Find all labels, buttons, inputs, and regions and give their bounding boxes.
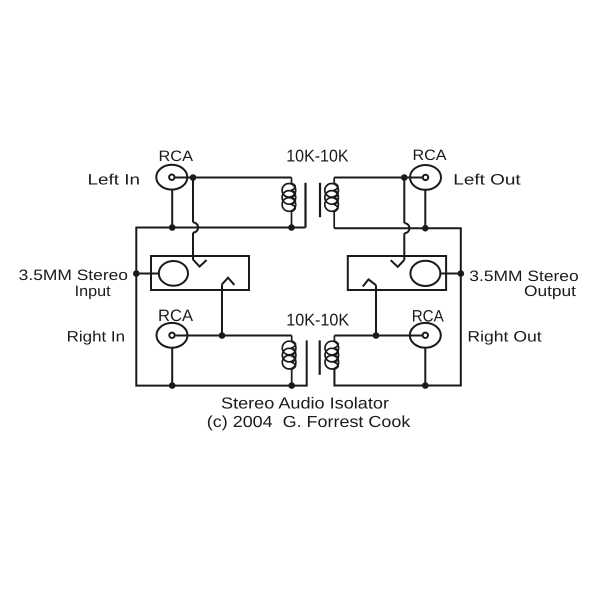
svg-text:Right Out: Right Out [467, 328, 542, 345]
junction T2 primary bottom / ground [288, 382, 295, 389]
svg-text:10K-10K: 10K-10K [286, 311, 350, 330]
wire output ground bus: T1 secondary bottom, right bus, bottom line [334, 228, 461, 385]
transformer T1 primary winding [282, 178, 296, 228]
svg-text:RCA: RCA [413, 147, 447, 164]
junction J6 ring / Right Out line [373, 332, 380, 339]
junction Right In shell / ground [169, 382, 176, 389]
transformer T2 core [319, 340, 321, 374]
svg-text:3.5MM Stereo: 3.5MM Stereo [19, 267, 128, 284]
RCA jack J2 Left Out [410, 165, 441, 190]
wire T1 secondary top to Left Out pin [334, 177, 423, 179]
svg-text:RCA: RCA [159, 148, 194, 165]
J6 ring contact [363, 279, 376, 286]
svg-text:Left Out: Left Out [453, 172, 521, 189]
junction Left In pin branch [190, 174, 197, 181]
wire Left In pin to T1 primary top [175, 177, 292, 179]
J6 tip contact [391, 260, 405, 267]
svg-text:RCA: RCA [158, 307, 193, 325]
transformer T1 secondary winding [325, 178, 339, 229]
wire J5 ring contact to Right In line [221, 284, 223, 335]
J5 sleeve opening [159, 261, 188, 286]
RCA jack J4 Right Out [410, 323, 441, 348]
junction J5 ring / Right In line [219, 332, 226, 339]
transformer T2 primary winding [282, 336, 296, 386]
wire T2 secondary top to Right Out pin [334, 335, 422, 337]
junction Right Out shell / output line [422, 382, 429, 389]
wire Right In pin to T2 primary top [175, 335, 292, 337]
J6 sleeve opening [410, 261, 440, 286]
svg-text:RCA: RCA [412, 308, 444, 326]
J5 ring contact [222, 278, 234, 285]
wire J6 ring contact to Right Out line [375, 285, 377, 335]
RCA jack J1 Left In [156, 165, 187, 190]
svg-text:Input: Input [75, 283, 112, 300]
wire Left In shell to ground [171, 190, 173, 228]
wire J5 sleeve to ground bus [136, 273, 159, 275]
3.5mm stereo jack J6 (output) body [348, 256, 446, 290]
svg-text:(c) 2004 G. Forrest Cook: (c) 2004 G. Forrest Cook [207, 414, 412, 431]
J5 tip contact [193, 260, 207, 267]
3.5mm stereo jack J5 (input) body [151, 256, 249, 290]
wire input ground bus: T1 primary bottom, left bus, bottom ground line [136, 228, 306, 386]
wire hop over ground line [193, 222, 198, 232]
svg-text:Right In: Right In [67, 328, 125, 345]
wire Left Out pin branch to J6 tip contact (hops output line) [403, 178, 405, 261]
svg-text:Stereo Audio Isolator: Stereo Audio Isolator [221, 395, 390, 412]
junction Left Out shell / output line [422, 225, 429, 232]
svg-text:Left In: Left In [88, 171, 141, 188]
wire Left In pin branch to J5 tip contact (hops ground line) [192, 178, 194, 260]
junction Left Out pin branch [401, 174, 408, 181]
RCA jack J3 Right In [157, 323, 188, 348]
wire Left Out shell to output common [424, 190, 426, 228]
junction J6 sleeve / right bus [458, 270, 465, 277]
transformer T1 core [306, 183, 321, 228]
svg-text:10K-10K: 10K-10K [286, 146, 349, 165]
junction J5 sleeve / left bus [133, 270, 140, 277]
wire Right Out shell to output common [424, 348, 426, 386]
wire hop over output line [404, 223, 409, 233]
svg-text:Output: Output [524, 283, 577, 300]
junction Left In shell / ground [169, 224, 176, 231]
wire J6 sleeve to output bus [440, 273, 460, 275]
wire Right In shell to ground [171, 348, 173, 386]
junction T1 primary bottom / ground [288, 224, 295, 231]
transformer T2 secondary winding [325, 336, 339, 386]
